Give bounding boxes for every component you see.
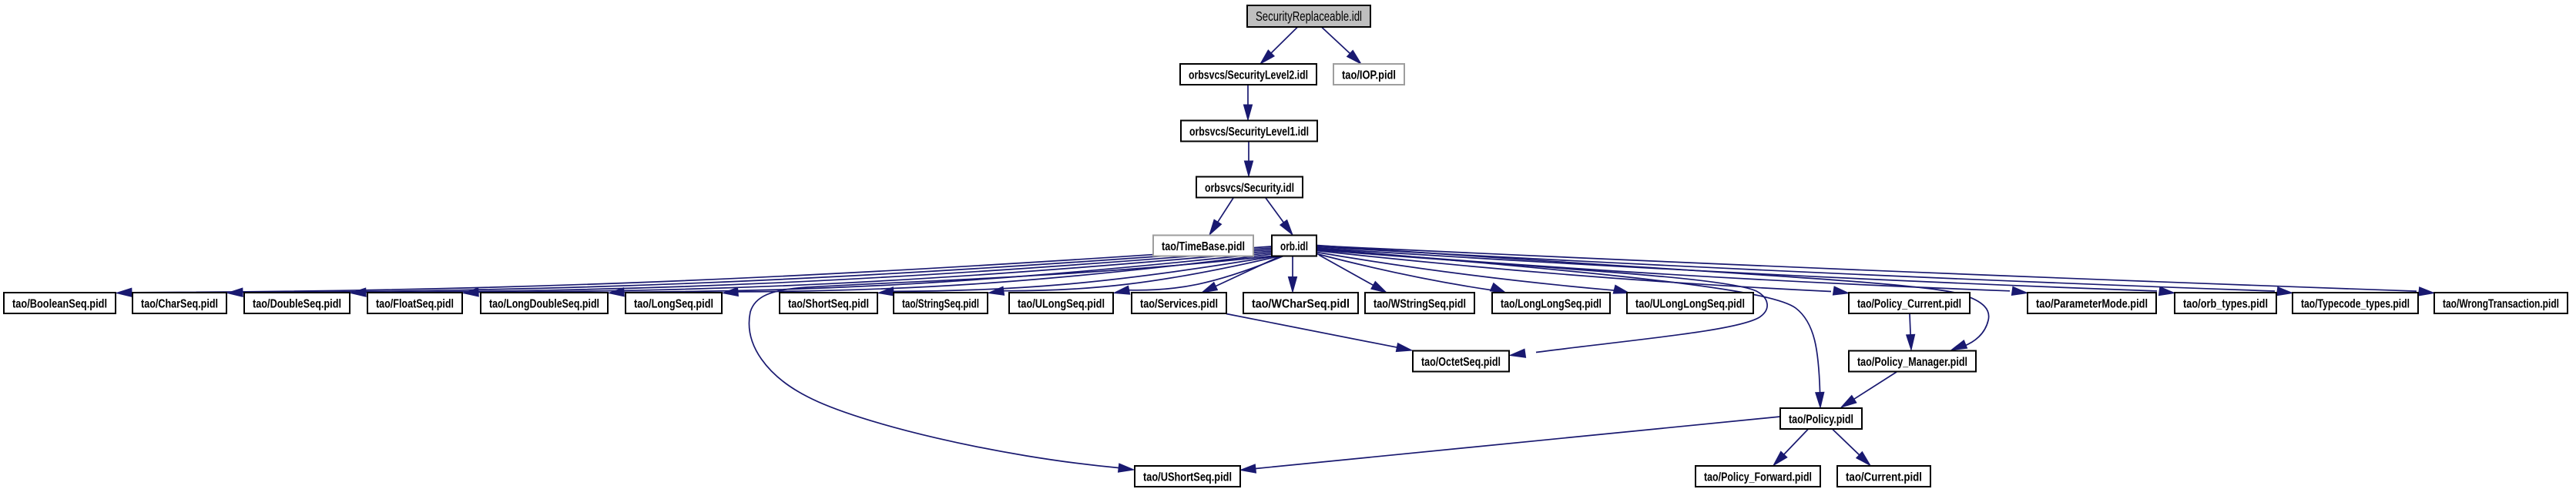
svg-text:tao/CharSeq.pidl: tao/CharSeq.pidl [141,297,218,310]
edge orb->Float [463,251,1272,296]
svg-text:SecurityReplaceable.idl: SecurityReplaceable.idl [1256,8,1362,24]
node tao/Current.pidl [1837,466,1930,487]
edge SL1->Sec [1244,142,1253,176]
svg-text:tao/StringSeq.pidl: tao/StringSeq.pidl [902,297,979,310]
node tao/StringSeq.pidl [894,293,988,313]
edge orb->Services [1202,256,1280,293]
svg-text:tao/BooleanSeq.pidl: tao/BooleanSeq.pidl [12,297,107,310]
svg-text:tao/ShortSeq.pidl: tao/ShortSeq.pidl [788,297,869,310]
node tao/LongSeq.pidl [626,293,722,313]
edge orb->WString [1319,255,1387,293]
svg-text:tao/WCharSeq.pidl: tao/WCharSeq.pidl [1252,297,1350,310]
edge root->SL2 [1260,28,1297,65]
node tao/Services.pidl [1132,293,1226,313]
node tao/Policy_Forward.pidl [1696,466,1820,487]
svg-text:tao/Services.pidl: tao/Services.pidl [1140,297,1218,310]
node tao/DoubleSeq.pidl [244,293,350,313]
svg-text:tao/OctetSeq.pidl: tao/OctetSeq.pidl [1421,356,1501,369]
node orbsvcs/SecurityLevel1.idl [1181,121,1317,142]
node tao/WStringSeq.pidl [1365,293,1474,313]
node tao/BooleanSeq.pidl [4,293,116,313]
edge root->IOP [1322,28,1361,65]
svg-text:tao/Policy.pidl: tao/Policy.pidl [1789,413,1853,426]
edge PolicyCur->PM [1907,314,1915,350]
svg-text:tao/IOP.pidl: tao/IOP.pidl [1342,69,1396,82]
edge PM->Policy [1841,372,1897,407]
edge orb->orbtypes [1317,248,2175,296]
svg-text:tao/ULongSeq.pidl: tao/ULongSeq.pidl [1018,297,1105,310]
node tao/WrongTransaction.pidl [2434,293,2568,313]
edge orb->Long [723,254,1272,296]
svg-text:tao/Policy_Manager.pidl: tao/Policy_Manager.pidl [1857,356,1967,369]
node tao/Typecode_types.pidl [2293,293,2418,313]
svg-text:tao/Policy_Current.pidl: tao/Policy_Current.pidl [1857,297,1961,310]
edge orb->PolicyCur [1317,251,1849,296]
edge orb->Double [351,250,1272,296]
svg-text:tao/Policy_Forward.pidl: tao/Policy_Forward.pidl [1704,471,1812,484]
svg-text:orbsvcs/SecurityLevel1.idl: orbsvcs/SecurityLevel1.idl [1189,126,1309,139]
node tao/Policy.pidl [1780,408,1862,429]
svg-text:tao/Current.pidl: tao/Current.pidl [1846,471,1922,484]
node tao/WCharSeq.pidl [1243,293,1358,313]
edge Policy->Current [1833,430,1870,466]
node SecurityReplaceable.idl [1247,5,1370,27]
node orbsvcs/Security.idl [1196,177,1303,198]
edge Services->OctetSeq [1226,314,1412,352]
node orb.idl [1272,236,1317,256]
svg-text:tao/LongDoubleSeq.pidl: tao/LongDoubleSeq.pidl [489,297,599,310]
edge orb->ULong [1114,256,1283,295]
node tao/CharSeq.pidl [132,293,226,313]
node tao/Policy_Current.pidl [1849,293,1970,313]
edge orb->Char [227,248,1272,296]
edge orb->LongLong [1317,254,1506,293]
edge orb->Typecode [1317,247,2293,296]
node tao/ParameterMode.pidl [2028,293,2156,313]
edge orb->WChar [1288,256,1296,293]
node tao/TimeBase.pidl [1153,236,1253,256]
node tao/OctetSeq.pidl [1413,351,1509,372]
edge orb->WrongTrans [1317,246,2434,296]
svg-text:tao/orb_types.pidl: tao/orb_types.pidl [2183,297,2268,310]
node tao/LongDoubleSeq.pidl [481,293,608,313]
edge orb->Policy [1317,249,1824,408]
svg-text:tao/FloatSeq.pidl: tao/FloatSeq.pidl [376,297,454,310]
node tao/FloatSeq.pidl [367,293,462,313]
edge orb->PM [1317,246,1989,350]
svg-text:tao/WrongTransaction.pidl: tao/WrongTransaction.pidl [2443,297,2559,310]
node tao/ULongSeq.pidl [1009,293,1113,313]
edge orb->ParamMode [1317,250,2028,296]
edge Policy->Forward [1773,430,1808,466]
node tao/UShortSeq.pidl [1135,466,1240,487]
svg-text:tao/LongSeq.pidl: tao/LongSeq.pidl [634,297,713,310]
node tao/ULongLongSeq.pidl [1627,293,1753,313]
svg-text:tao/TimeBase.pidl: tao/TimeBase.pidl [1162,240,1245,253]
svg-text:tao/Typecode_types.pidl: tao/Typecode_types.pidl [2301,297,2410,310]
svg-text:tao/ParameterMode.pidl: tao/ParameterMode.pidl [2036,297,2148,310]
node orbsvcs/SecurityLevel2.idl [1180,64,1317,85]
svg-text:orb.idl: orb.idl [1280,240,1308,253]
svg-text:tao/UShortSeq.pidl: tao/UShortSeq.pidl [1143,471,1232,484]
svg-text:tao/ULongLongSeq.pidl: tao/ULongLongSeq.pidl [1635,297,1745,310]
node tao/ShortSeq.pidl [780,293,877,313]
edge orb->String [988,256,1280,296]
edge Sec->TimeBase [1209,198,1233,235]
edge Policy->UShort [1240,417,1780,473]
edge orb->UShort [749,256,1272,473]
svg-text:orbsvcs/SecurityLevel2.idl: orbsvcs/SecurityLevel2.idl [1189,69,1308,82]
edge orb->LongDouble [609,253,1272,296]
edge SL2->SL1 [1243,85,1252,121]
node tao/IOP.pidl [1333,64,1404,85]
svg-text:tao/LongLongSeq.pidl: tao/LongLongSeq.pidl [1501,297,1602,310]
edge orb->OctetSeq [1317,250,1767,358]
edge orb->Short [878,256,1276,296]
node tao/LongLongSeq.pidl [1492,293,1610,313]
node tao/Policy_Manager.pidl [1849,351,1976,372]
edge orb->Boolean [116,246,1272,296]
edge orb->ULongLong [1317,253,1629,294]
edge Sec->orb [1266,198,1293,235]
svg-text:tao/WStringSeq.pidl: tao/WStringSeq.pidl [1374,297,1466,310]
svg-text:orbsvcs/Security.idl: orbsvcs/Security.idl [1205,182,1294,195]
node tao/orb_types.pidl [2175,293,2276,313]
svg-text:tao/DoubleSeq.pidl: tao/DoubleSeq.pidl [253,297,341,310]
